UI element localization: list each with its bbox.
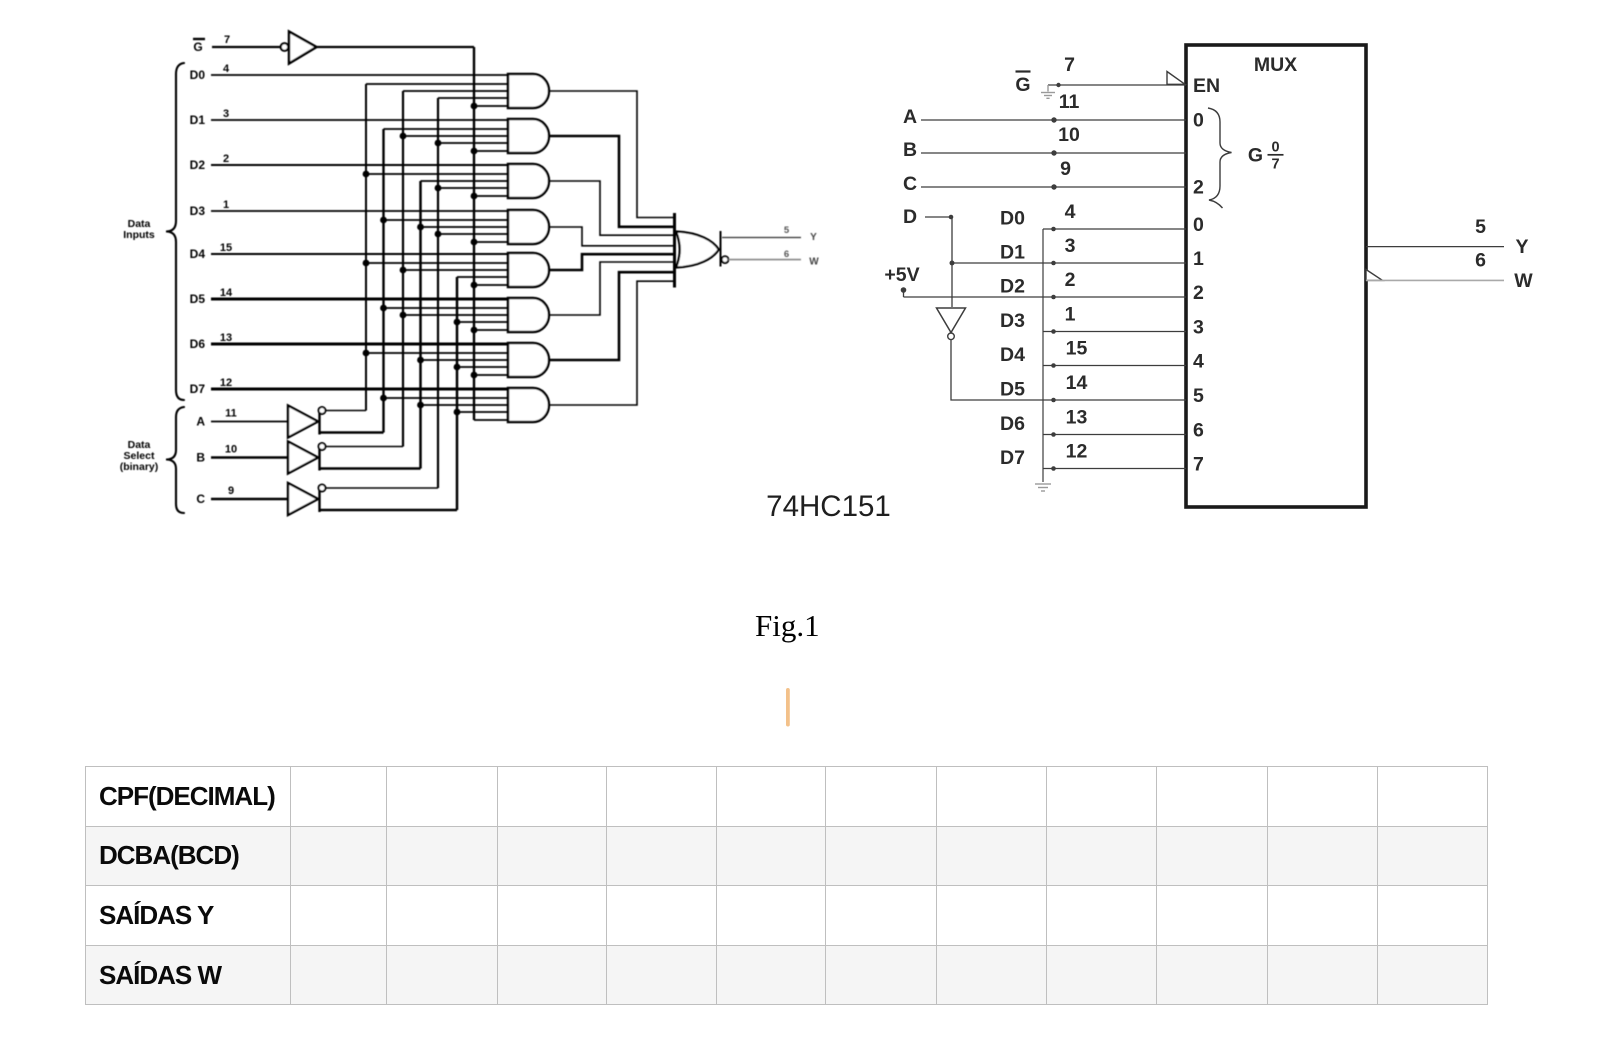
svg-text:MUX: MUX <box>1254 54 1297 76</box>
label MUX <box>1254 54 1297 76</box>
node Data Select brace <box>166 407 184 513</box>
AND gate U1C <box>508 164 549 198</box>
inverter U4A (select A) <box>288 406 326 438</box>
label data port 0 <box>1193 214 1204 236</box>
power +5V <box>884 264 919 297</box>
svg-text:D3: D3 <box>190 204 206 218</box>
svg-text:0: 0 <box>1271 140 1279 156</box>
svg-text:D4: D4 <box>190 247 206 261</box>
node A select input, pin 11 <box>196 408 236 429</box>
svg-text:7: 7 <box>1193 454 1204 476</box>
wire U1D output to NOR U3 <box>549 227 674 246</box>
AND gate U1A <box>508 74 549 108</box>
wire D5 row to MUX port 5 <box>1043 398 1186 403</box>
svg-text:Y: Y <box>810 232 817 243</box>
wire U1H output to NOR U3 <box>549 281 674 405</box>
wire select bus B' <box>400 91 508 447</box>
svg-text:7: 7 <box>224 34 230 46</box>
wire D1 row from D <box>952 262 1043 264</box>
svg-text:5: 5 <box>1193 385 1204 407</box>
node select input C pin 9 <box>903 158 1071 195</box>
wire ground bus vertical <box>1042 229 1044 482</box>
wire U1A output to NOR U3 <box>549 91 674 218</box>
AND gate U1E <box>508 253 549 287</box>
node text cursor <box>786 688 790 727</box>
wire Gbar to inverter U2 <box>212 46 281 48</box>
inverter U6 (D to D5) <box>937 308 966 340</box>
node W polarity triangle <box>1366 270 1383 281</box>
svg-text:B: B <box>196 451 205 465</box>
svg-text:D7: D7 <box>190 382 206 396</box>
svg-text:D1: D1 <box>1000 242 1025 264</box>
wire select bus C' <box>435 98 508 488</box>
svg-text:74HC151: 74HC151 <box>766 490 891 523</box>
wire select bus B <box>417 181 508 469</box>
label data port 1 <box>1193 248 1204 270</box>
ground symbol bottom <box>1035 484 1051 491</box>
svg-text:3: 3 <box>223 108 229 120</box>
svg-text:4: 4 <box>1193 351 1204 373</box>
svg-text:C: C <box>196 492 205 506</box>
wire U1F output to NOR U3 <box>549 262 674 315</box>
svg-text:14: 14 <box>220 287 233 299</box>
svg-text:Fig.1: Fig.1 <box>755 608 820 643</box>
wire D3 to AND gate U1D <box>211 210 508 212</box>
svg-text:0: 0 <box>1193 214 1204 236</box>
wire output W pin 6 <box>728 259 801 261</box>
wire D7 to AND gate U1H <box>211 388 508 391</box>
node D2 data input, pin 2 <box>190 153 229 172</box>
node Gbar input label <box>193 39 205 54</box>
node data input D5 pin 14 <box>1000 372 1087 401</box>
MUX U5 74HC151 block <box>1186 45 1366 507</box>
wire output W pin 6 <box>1366 279 1504 281</box>
label G 0/7 <box>1248 140 1284 173</box>
node Data Inputs brace <box>166 63 184 400</box>
ground at Gbar <box>1041 85 1055 98</box>
svg-text:W: W <box>1514 270 1533 292</box>
NOR gate U3 (output) <box>675 213 729 288</box>
wire D2 to AND gate U1C <box>211 164 508 166</box>
svg-text:D3: D3 <box>1000 310 1025 332</box>
wire U1E output to NOR U3 <box>549 254 674 270</box>
wire C-complement to bus <box>326 487 439 489</box>
label pin 7 <box>1064 54 1075 76</box>
label data port 2 <box>1193 282 1204 304</box>
label Data Inputs <box>123 218 155 241</box>
svg-text:Inputs: Inputs <box>123 229 155 241</box>
svg-text:D6: D6 <box>190 337 206 351</box>
svg-text:D5: D5 <box>1000 379 1025 401</box>
svg-text:A: A <box>903 106 917 128</box>
wire select bus A' <box>363 84 508 411</box>
wire D6 to AND gate U1G <box>211 343 508 346</box>
node data input D2 pin 2 <box>1000 269 1076 298</box>
svg-text:B: B <box>903 139 917 161</box>
svg-text:D4: D4 <box>1000 344 1025 366</box>
node EN polarity triangle <box>1167 72 1185 85</box>
wire D4 to AND gate U1E <box>211 253 508 255</box>
svg-text:13: 13 <box>1066 407 1088 429</box>
wire A-true to bus <box>320 431 384 433</box>
node B select input, pin 10 <box>196 444 237 465</box>
AND gate U1B <box>508 119 549 153</box>
svg-text:13: 13 <box>220 332 232 344</box>
svg-text:2: 2 <box>1065 269 1076 291</box>
svg-text:EN: EN <box>1193 75 1220 97</box>
wire D6 row to MUX port 6 <box>1043 432 1186 437</box>
node data input D1 pin 3 <box>1000 235 1076 264</box>
node select input B pin 10 <box>903 124 1080 161</box>
svg-text:D0: D0 <box>190 68 206 82</box>
wire D4 row to MUX port 4 <box>1043 363 1186 368</box>
svg-text:5: 5 <box>1475 216 1486 238</box>
label EN <box>1193 75 1220 97</box>
svg-text:10: 10 <box>1058 124 1080 146</box>
node data input D6 pin 13 <box>1000 407 1087 436</box>
svg-text:D2: D2 <box>190 158 206 172</box>
node D4 data input, pin 15 <box>190 242 232 261</box>
wire D1 row to MUX port 1 <box>1043 261 1186 266</box>
node data input D3 pin 1 <box>1000 304 1076 333</box>
wire enable bus from U2 output <box>317 46 474 48</box>
wire U6 output to D5 row <box>951 340 1043 400</box>
wire D0 to AND gate U1A <box>211 74 508 76</box>
svg-text:6: 6 <box>1193 420 1204 442</box>
svg-text:6: 6 <box>1475 250 1486 272</box>
svg-text:2: 2 <box>1193 177 1204 199</box>
svg-text:14: 14 <box>1066 372 1088 394</box>
wire D stub <box>925 215 953 220</box>
label 5 Y <box>1475 216 1528 258</box>
node D1 data input, pin 3 <box>190 108 229 127</box>
svg-text:3: 3 <box>1065 235 1076 257</box>
svg-text:A: A <box>196 415 205 429</box>
svg-text:Y: Y <box>1515 236 1528 258</box>
wire B to MUX <box>921 150 1186 155</box>
node data input D7 pin 12 <box>1000 441 1087 470</box>
wire U1B output to NOR U3 <box>549 136 674 227</box>
wire +5V to D2 row <box>904 296 1044 298</box>
AND gate U1D <box>508 210 549 244</box>
svg-text:3: 3 <box>1193 317 1204 339</box>
node D input <box>903 206 917 228</box>
inverter U4C (select C) <box>288 483 326 515</box>
wire A-complement to bus <box>326 410 367 412</box>
wire C to MUX <box>921 184 1186 189</box>
label data port 6 <box>1193 420 1204 442</box>
wire B-true to bus <box>320 467 421 469</box>
wire output Y pin 5 <box>722 237 801 239</box>
svg-text:W: W <box>809 257 819 268</box>
svg-text:11: 11 <box>1059 91 1080 113</box>
svg-text:7: 7 <box>1271 157 1279 173</box>
inverter U4B (select B) <box>288 442 326 474</box>
svg-text:D: D <box>903 206 917 228</box>
svg-text:D0: D0 <box>1000 208 1025 230</box>
label select port 0 <box>1193 110 1204 132</box>
svg-text:D6: D6 <box>1000 413 1025 435</box>
svg-text:D5: D5 <box>190 292 206 306</box>
node select brace G 0/7 <box>1208 108 1232 208</box>
svg-text:G: G <box>1248 145 1263 167</box>
wire enable bus G <box>471 47 508 420</box>
svg-text:12: 12 <box>1066 441 1088 463</box>
node D3 data input, pin 1 <box>190 199 229 218</box>
wire U1C output to NOR U3 <box>549 181 674 235</box>
label select port 2 <box>1193 177 1204 199</box>
wire D vertical to D1 and inverter U6 <box>950 217 955 307</box>
svg-text:4: 4 <box>1065 201 1076 223</box>
svg-text:1: 1 <box>1193 248 1204 270</box>
svg-text:4: 4 <box>223 63 230 75</box>
svg-text:D7: D7 <box>1000 447 1025 469</box>
wire B to inverter <box>211 456 288 459</box>
svg-text:12: 12 <box>220 377 232 389</box>
node D7 data input, pin 12 <box>190 377 232 396</box>
svg-text:5: 5 <box>784 225 790 236</box>
svg-text:2: 2 <box>223 153 229 165</box>
svg-text:D2: D2 <box>1000 276 1025 298</box>
label Fig.1 <box>755 608 820 643</box>
svg-text:1: 1 <box>1065 304 1076 326</box>
label 74HC151 <box>766 490 891 523</box>
svg-text:2: 2 <box>1193 282 1204 304</box>
wire D0 row to MUX port 0 <box>1043 227 1186 232</box>
wire D1 to AND gate U1B <box>211 119 508 121</box>
wire B-complement to bus <box>326 446 404 448</box>
svg-text:0: 0 <box>1193 110 1204 132</box>
node C select input, pin 9 <box>196 485 234 506</box>
node data input D4 pin 15 <box>1000 338 1087 367</box>
label data port 3 <box>1193 317 1204 339</box>
wire U1G output to NOR U3 <box>549 272 674 360</box>
node D5 data input, pin 14 <box>190 287 233 306</box>
wire A to inverter <box>211 421 288 423</box>
wire Gbar to EN <box>1048 83 1186 87</box>
wire D2 row to MUX port 2 <box>1043 295 1186 300</box>
svg-text:1: 1 <box>223 199 229 211</box>
wire select bus A <box>380 129 508 433</box>
AND gate U1G <box>508 343 549 377</box>
AND gate U1H <box>508 388 549 422</box>
svg-text:11: 11 <box>225 408 237 420</box>
label data port 7 <box>1193 454 1204 476</box>
node data input D0 pin 4 <box>1000 201 1076 230</box>
wire D3 row to MUX port 3 <box>1043 329 1186 334</box>
AND gate U1F <box>508 298 549 332</box>
wire select bus C <box>454 277 508 510</box>
wire C-true to bus <box>320 509 458 511</box>
svg-text:9: 9 <box>1060 158 1071 180</box>
node Gbar label <box>1015 72 1030 97</box>
svg-text:15: 15 <box>1066 338 1088 360</box>
svg-text:+5V: +5V <box>884 264 919 286</box>
node select input A pin 11 <box>903 91 1080 128</box>
label data port 4 <box>1193 351 1204 373</box>
label pin 6 W <box>784 249 819 268</box>
svg-text:10: 10 <box>225 444 237 456</box>
label data port 5 <box>1193 385 1204 407</box>
svg-text:9: 9 <box>228 485 234 497</box>
node D0 data input, pin 4 <box>190 63 230 82</box>
wire C to inverter <box>211 498 288 501</box>
pin 7 label <box>224 34 230 46</box>
svg-text:6: 6 <box>784 249 789 260</box>
wire D5 to AND gate U1F <box>211 298 508 301</box>
wire A to MUX <box>921 117 1186 122</box>
label pin 5 Y <box>784 225 817 243</box>
wire output Y pin 5 <box>1366 246 1504 248</box>
svg-text:G: G <box>193 40 202 54</box>
svg-text:D1: D1 <box>190 113 206 127</box>
label Data Select (binary) <box>120 439 159 473</box>
svg-text:(binary): (binary) <box>120 461 159 473</box>
inverter U2 (strobe) <box>281 32 317 64</box>
node D6 data input, pin 13 <box>190 332 232 351</box>
wire D7 row to MUX port 7 <box>1043 466 1186 471</box>
svg-text:G: G <box>1015 74 1030 96</box>
svg-text:15: 15 <box>220 242 232 254</box>
svg-text:7: 7 <box>1064 54 1075 76</box>
svg-text:C: C <box>903 173 917 195</box>
label 6 W <box>1475 250 1533 293</box>
